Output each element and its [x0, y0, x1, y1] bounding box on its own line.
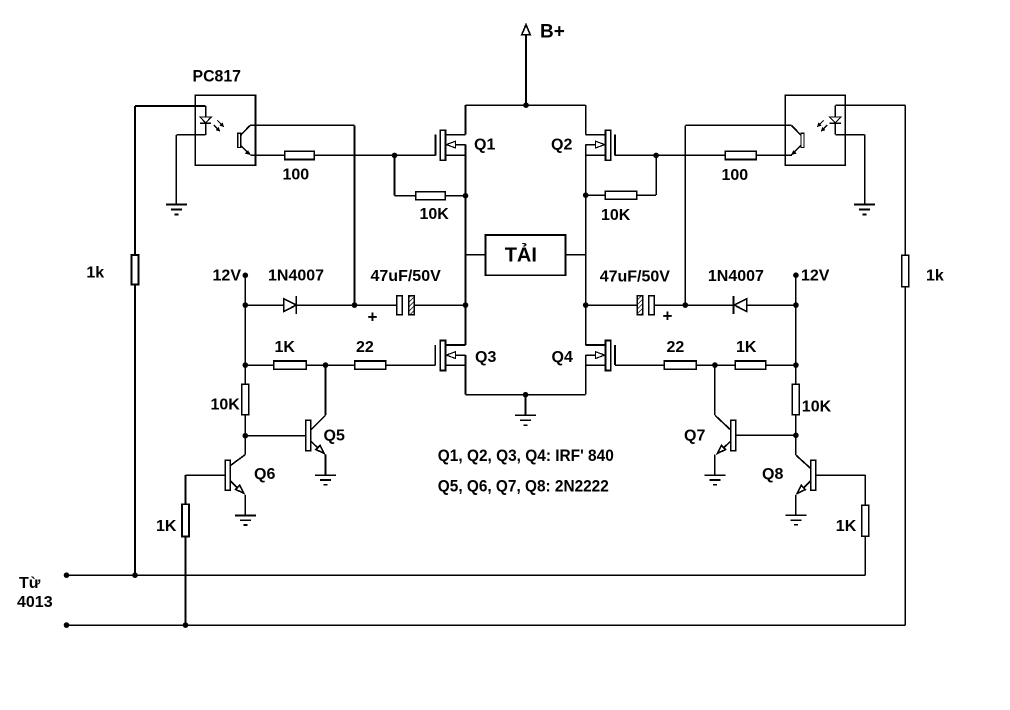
- LED of PC817 left: [200, 106, 211, 135]
- svg-text:1K: 1K: [836, 518, 857, 535]
- svg-text:Q4: Q4: [552, 349, 573, 366]
- wire cap to collector node right: [654, 304, 685, 306]
- wire 10K to right rail: [586, 194, 606, 196]
- wire Q5 base: [245, 435, 305, 437]
- ground Q5: [315, 475, 336, 485]
- wire 1K row left: [245, 364, 354, 366]
- resistor 10K left vertical: [242, 384, 249, 415]
- LED emission arrows right: [817, 121, 827, 132]
- svg-text:4013: 4013: [17, 594, 53, 611]
- wire 12V right node down to 1K row: [795, 305, 797, 384]
- node diode anode right: [793, 302, 799, 308]
- node 12V left: [243, 273, 249, 279]
- resistor 1K left vertical: [182, 504, 189, 536]
- transistor Q7: [715, 415, 736, 453]
- resistor 10K right top: [605, 191, 636, 199]
- svg-text:12V: 12V: [213, 268, 242, 285]
- ground bridge: [515, 395, 536, 426]
- wire cap right row lead: [586, 304, 638, 306]
- wire right outer vertical: [904, 105, 906, 625]
- svg-text:Q1: Q1: [474, 136, 495, 153]
- svg-text:10K: 10K: [420, 206, 450, 223]
- svg-text:12V: 12V: [801, 268, 830, 285]
- phototransistor of right opto: [791, 126, 804, 156]
- wire bottom rail: [466, 394, 586, 396]
- node bottom rail junction: [523, 392, 529, 398]
- wire gate junction to R100 right: [656, 154, 725, 156]
- svg-text:PC817: PC817: [193, 67, 242, 85]
- node left rail cap: [463, 302, 469, 308]
- svg-text:10K: 10K: [802, 399, 832, 416]
- mosfet Q4: [586, 341, 615, 371]
- opto U2 box right: [785, 95, 845, 165]
- resistor 1K left horizontal: [274, 361, 306, 369]
- wire bottom rail 2 from 4013: [67, 624, 906, 626]
- wire right rail upper: [585, 105, 587, 134]
- node left rail 10K: [463, 193, 469, 199]
- node rail2 left end: [64, 622, 70, 628]
- node left 1K row: [243, 362, 249, 368]
- wire right rail lower: [585, 355, 587, 395]
- node rail1 outer wire junction: [132, 572, 138, 578]
- wire diode row right: [685, 304, 796, 306]
- transistor Q8: [797, 460, 815, 493]
- resistor 1K right vertical: [862, 505, 869, 536]
- wire right LED anode to outer wire: [835, 104, 905, 106]
- svg-text:22: 22: [667, 339, 685, 356]
- wire Q2 gate lead: [615, 154, 656, 156]
- diode 1N4007 left: [284, 296, 297, 314]
- node right 1K row: [793, 362, 799, 368]
- svg-text:Q3: Q3: [475, 349, 496, 366]
- node Q7 base junction: [793, 433, 799, 439]
- svg-text:B+: B+: [540, 21, 565, 42]
- wire 1K bottom to rail2: [185, 537, 187, 626]
- wire Q6 collector up: [244, 436, 246, 455]
- wire opto emitter to R100: [250, 154, 284, 156]
- svg-text:100: 100: [283, 167, 310, 184]
- node Q5 base junction: [243, 433, 249, 439]
- wire Q6 base: [186, 475, 226, 504]
- svg-text:Q2: Q2: [551, 136, 572, 153]
- wire Q7 emitter down: [714, 455, 716, 476]
- wire right LED cathode to ground: [835, 135, 864, 205]
- resistor 1k left: [132, 255, 139, 285]
- phototransistor of PC817 left: [238, 126, 251, 156]
- wire R100 to opto emitter right: [756, 154, 792, 156]
- svg-text:TẢI: TẢI: [505, 244, 537, 267]
- resistor 10K left top: [416, 192, 446, 200]
- svg-text:1k: 1k: [926, 268, 944, 285]
- wire B+ stem: [525, 35, 527, 105]
- transistor Q5: [306, 415, 326, 453]
- wire 10K bottom to Q6 collector node: [244, 415, 246, 436]
- wire left outer vertical: [134, 106, 136, 575]
- wire Q7 collector up: [714, 365, 716, 415]
- LED emission arrows left: [214, 121, 224, 132]
- wire Q8 base to 1K right: [816, 475, 866, 505]
- svg-text:Q7: Q7: [684, 428, 705, 445]
- wire to 10K left: [395, 195, 416, 197]
- wire Q5 collector up: [325, 365, 327, 415]
- svg-text:1K: 1K: [736, 339, 757, 356]
- svg-text:1N4007: 1N4007: [708, 268, 764, 285]
- resistor 10K right vertical: [792, 384, 799, 415]
- resistor 1K right horizontal: [735, 361, 766, 369]
- ground right opto: [854, 205, 875, 215]
- wire gate junction down: [394, 155, 396, 195]
- opto U1 box PC817: [195, 95, 255, 165]
- wire to 10K right top: [637, 194, 656, 196]
- resistor 22 left: [355, 361, 386, 369]
- load box TAI leads: [466, 254, 586, 256]
- mosfet Q2: [586, 130, 615, 160]
- node right cap-collector junction: [683, 302, 689, 308]
- svg-text:10K: 10K: [601, 207, 631, 224]
- wire 22 to Q3 gate: [386, 364, 436, 366]
- svg-text:1k: 1k: [86, 265, 104, 282]
- wire 1K right bottom to rail1: [864, 536, 866, 575]
- node Q7 collector junction: [712, 362, 718, 368]
- wire cap left lead: [355, 304, 397, 306]
- ground Q7: [704, 475, 725, 485]
- wire left opto input: [135, 105, 206, 107]
- wire 10K to left rail: [445, 195, 465, 197]
- resistor 22 right: [664, 361, 696, 369]
- svg-text:22: 22: [356, 339, 374, 356]
- svg-text:Q5, Q6, Q7, Q8: 2N2222: Q5, Q6, Q7, Q8: 2N2222: [438, 478, 609, 496]
- capacitor 47uF/50V right: [637, 296, 654, 315]
- node 12V right: [793, 272, 799, 278]
- svg-text:1K: 1K: [156, 518, 177, 535]
- wire Q8 emitter down: [795, 495, 797, 515]
- resistor 100 left: [285, 151, 314, 159]
- node left cap-collector junction: [352, 302, 358, 308]
- resistor 100 right: [725, 151, 756, 159]
- svg-text:Q5: Q5: [324, 428, 345, 445]
- wire 12V left down: [244, 275, 246, 305]
- svg-text:100: 100: [722, 167, 749, 184]
- capacitor 47uF/50V left: [397, 296, 415, 315]
- wire left rail middle: [465, 145, 467, 345]
- node left gate junction: [392, 153, 398, 159]
- wire bottom rail 1 from 4013: [67, 574, 866, 576]
- svg-text:Q1, Q2, Q3, Q4: IRF' 840: Q1, Q2, Q3, Q4: IRF' 840: [438, 447, 614, 465]
- wire right gate junction down: [655, 155, 657, 195]
- svg-text:Q8: Q8: [762, 466, 783, 483]
- node rail1 left end: [64, 572, 70, 578]
- svg-text:1N4007: 1N4007: [268, 268, 324, 285]
- svg-text:Từ: Từ: [19, 575, 41, 592]
- ground left opto: [166, 205, 187, 215]
- svg-text:+: +: [368, 308, 378, 327]
- transistor Q6: [225, 455, 245, 494]
- wire right opto collector to cap node: [685, 125, 791, 305]
- wire top rail: [466, 104, 586, 106]
- node Q5 collector junction: [323, 362, 329, 368]
- wire opto collector to cap node: [250, 125, 355, 305]
- node rail2 1K junction: [183, 622, 189, 628]
- node top rail junction: [523, 102, 529, 108]
- wire R100 to Q1 gate: [314, 154, 435, 156]
- wire Q8 collector: [796, 435, 811, 468]
- load box TAI: [485, 235, 565, 275]
- node right gate junction: [653, 153, 659, 159]
- wire cap right lead to rail: [414, 304, 465, 306]
- wire Q4 gate row right: [615, 364, 796, 366]
- wire diode row left: [245, 304, 354, 306]
- wire LED cathode to ground: [176, 135, 205, 205]
- mosfet Q3: [435, 341, 465, 371]
- wire Q6 emitter down: [244, 495, 246, 516]
- ground Q8: [785, 515, 806, 525]
- svg-text:10K: 10K: [211, 397, 241, 414]
- wire 10K bottom to Q8 collector node: [795, 415, 797, 435]
- ground Q6: [235, 516, 256, 526]
- wire right rail middle: [585, 145, 587, 345]
- svg-text:+: +: [663, 307, 673, 326]
- mosfet Q1: [435, 130, 465, 160]
- B+ supply arrow: [522, 25, 531, 35]
- node right rail 10K: [583, 192, 589, 198]
- svg-text:47uF/50V: 47uF/50V: [600, 268, 671, 285]
- resistor 1k right: [902, 255, 909, 287]
- LED of right opto: [830, 105, 841, 134]
- wire left rail lower: [465, 355, 467, 395]
- node right rail cap: [583, 302, 589, 308]
- node diode anode left: [243, 302, 249, 308]
- wire 12V right down: [795, 275, 797, 305]
- svg-text:47uF/50V: 47uF/50V: [371, 268, 442, 285]
- wire left rail upper: [465, 105, 467, 134]
- wire Q7 base: [736, 434, 796, 436]
- svg-text:Q6: Q6: [254, 466, 275, 483]
- wire Q5 emitter down: [325, 455, 327, 476]
- svg-text:1K: 1K: [275, 339, 296, 356]
- wire 12V node to 1K row left: [244, 305, 246, 384]
- diode 1N4007 right: [734, 296, 747, 314]
